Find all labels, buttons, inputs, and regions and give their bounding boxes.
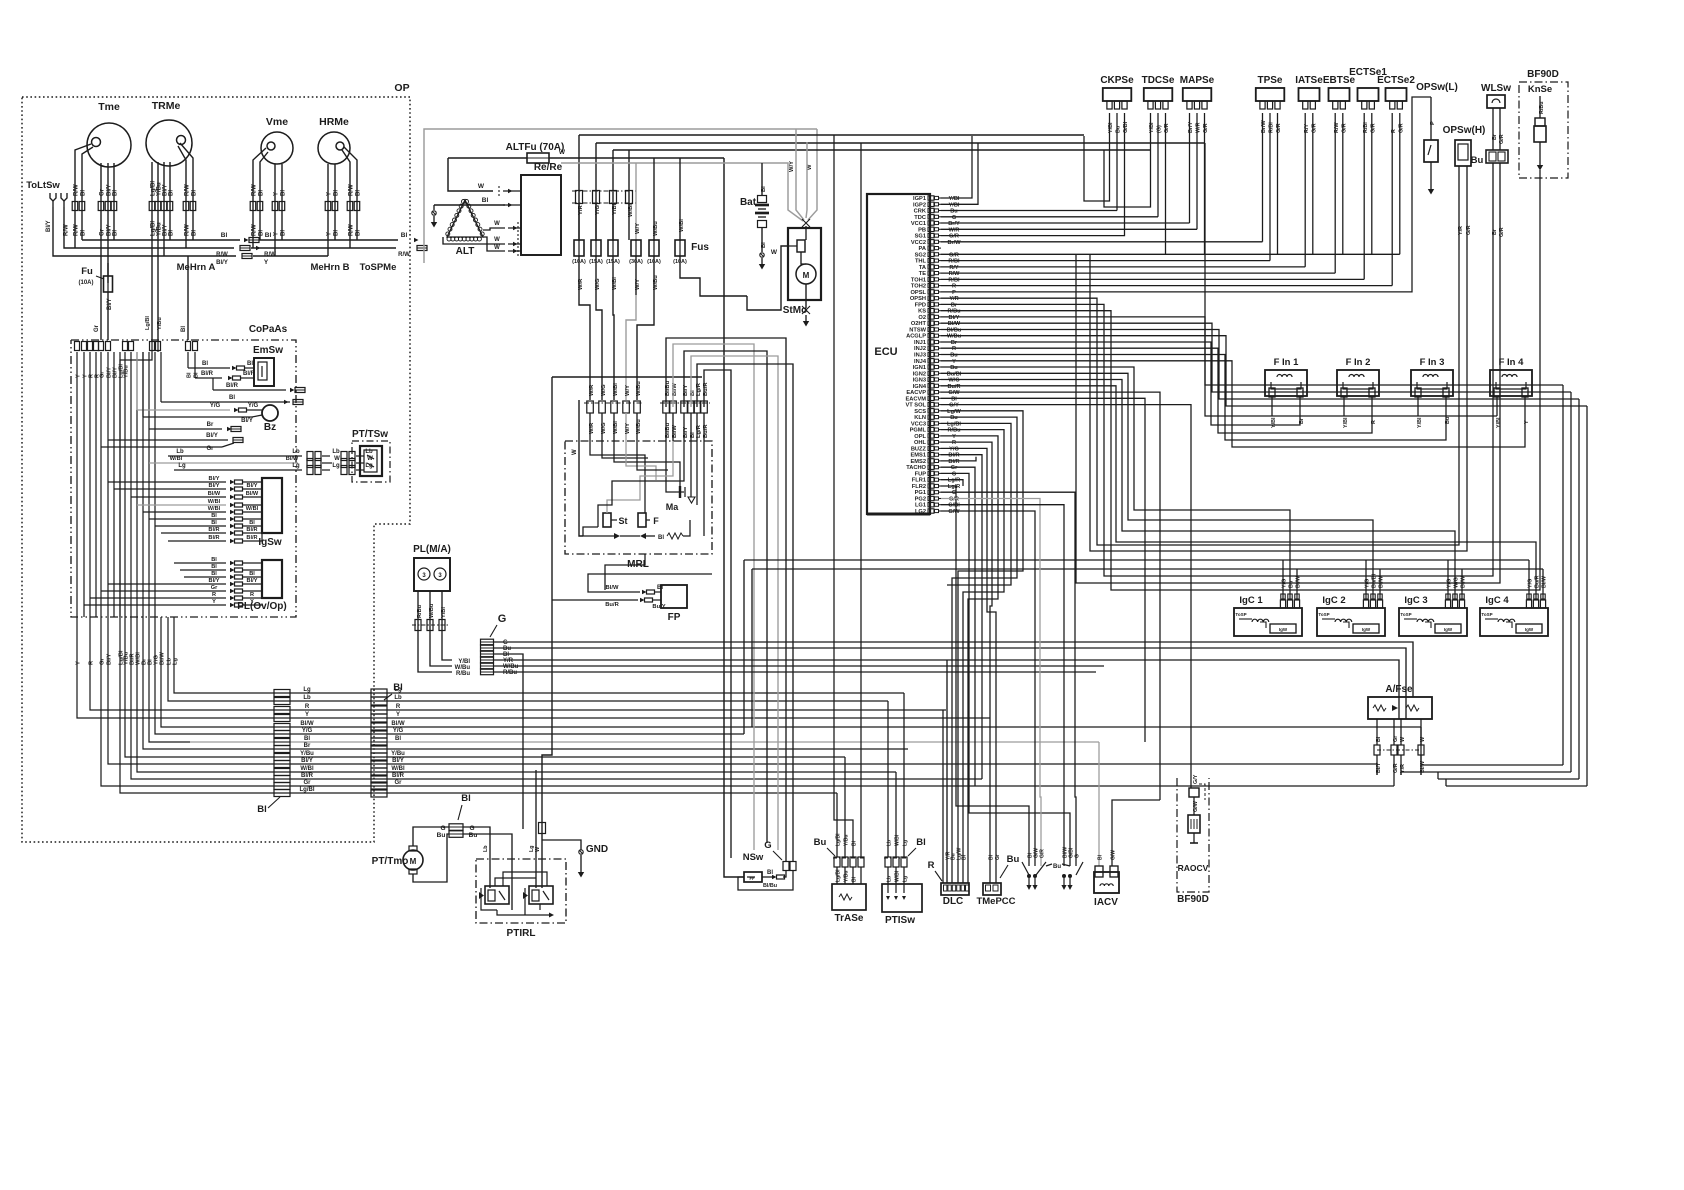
wire G row Y/R <box>494 660 1399 719</box>
wire Bl/R drop to bus <box>131 617 190 779</box>
svg-text:Bu: Bu <box>950 365 958 371</box>
svg-text:PTIRL: PTIRL <box>507 928 536 939</box>
wire EMS2 <box>941 457 976 461</box>
svg-text:Y: Y <box>212 599 216 605</box>
svg-text:Bl/Y: Bl/Y <box>949 315 960 321</box>
svg-text:WLSw: WLSw <box>1481 83 1511 94</box>
svg-text:Bu: Bu <box>950 353 958 359</box>
svg-text:G/W: G/W <box>948 390 960 396</box>
svg-text:R/Bu: R/Bu <box>947 428 961 434</box>
svg-text:Bl: Bl <box>951 396 957 402</box>
svg-text:W/Bl: W/Bl <box>300 766 314 772</box>
svg-text:PG1: PG1 <box>915 490 926 496</box>
svg-text:Bl/Y: Bl/Y <box>216 260 228 266</box>
svg-text:W: W <box>494 221 500 227</box>
svg-text:G: G <box>469 825 474 832</box>
wire Bl <box>192 166 194 240</box>
svg-text:Bl/R: Bl/R <box>208 527 219 533</box>
connector column Bl right <box>371 689 387 697</box>
svg-text:Bl: Bl <box>81 190 87 196</box>
wire Bl/W coil rail <box>752 568 1543 570</box>
svg-text:Gr: Gr <box>951 465 958 471</box>
svg-text:W: W <box>494 237 500 243</box>
svg-text:Bl/Y: Bl/Y <box>206 433 218 439</box>
ignition coil IgC 4 <box>1480 608 1548 636</box>
wire Y/G col <box>595 143 597 240</box>
svg-text:R: R <box>305 704 310 710</box>
svg-text:MAPSe: MAPSe <box>1180 75 1215 86</box>
wire BUZZ to TMePCC <box>941 448 996 883</box>
wire Y bus <box>190 717 990 719</box>
MRL bottom wire with diodes <box>583 535 614 537</box>
svg-text:W/Bu: W/Bu <box>636 419 642 434</box>
svg-text:W: W <box>771 249 778 256</box>
meter Vme <box>261 132 293 164</box>
svg-text:Bl/W: Bl/W <box>300 721 314 727</box>
wire Gr <box>100 167 102 310</box>
svg-text:Lb: Lb <box>332 449 340 455</box>
svg-text:R/Y: R/Y <box>949 265 959 271</box>
svg-text:Gr: Gr <box>394 780 402 786</box>
svg-text:W/Y: W/Y <box>789 161 795 172</box>
wire Y <box>327 170 329 256</box>
svg-text:R/W: R/W <box>264 252 276 258</box>
wire R drop to bus <box>90 617 190 710</box>
wire R/W <box>252 172 254 248</box>
svg-text:Bl/R: Bl/R <box>208 535 219 541</box>
svg-text:R: R <box>212 592 216 598</box>
valve IACV <box>1094 872 1119 893</box>
wire R bus <box>190 709 946 711</box>
svg-text:R: R <box>928 860 935 871</box>
svg-text:Lg/W: Lg/W <box>947 409 961 415</box>
wire Bl <box>356 170 358 240</box>
svg-text:R/W: R/W <box>252 224 258 236</box>
wire VT SOL to RAOCV <box>941 405 1191 788</box>
wire TRMe stubs <box>151 162 153 166</box>
wire Bl/Y <box>107 167 109 283</box>
wire Lg/Bl drop to bus <box>120 617 190 793</box>
svg-text:Bl: Bl <box>265 232 272 239</box>
wire Y/Bu <box>157 166 159 340</box>
wire Bl <box>113 167 115 240</box>
wire Lb drop to bus <box>168 617 190 701</box>
wire PG1 to ground2 <box>941 492 1076 866</box>
svg-text:EMS1: EMS1 <box>911 453 927 459</box>
svg-text:Bl: Bl <box>658 535 664 541</box>
svg-text:LG1: LG1 <box>915 503 926 509</box>
wire Lg/Bl Y/Bu through <box>151 340 153 352</box>
wire FUP to ground2 <box>941 473 1070 866</box>
svg-text:Gr: Gr <box>100 188 106 196</box>
svg-text:Bl: Bl <box>761 242 767 248</box>
OP panel dashed boundary <box>22 97 410 842</box>
svg-text:(10A): (10A) <box>78 280 93 286</box>
wire W/Bl to PT/TSw <box>149 462 298 464</box>
svg-text:Bl: Bl <box>761 186 767 192</box>
svg-text:Bl/Bu: Bl/Bu <box>763 883 777 889</box>
svg-text:TACHO: TACHO <box>906 465 926 471</box>
svg-text:R/Bu: R/Bu <box>947 309 961 315</box>
svg-text:Bl: Bl <box>961 854 967 860</box>
wire SG2 rail <box>941 253 1400 255</box>
ignition coil IgC 1 <box>1234 608 1302 636</box>
svg-text:FPD: FPD <box>915 302 926 308</box>
svg-text:Lg: Lg <box>394 687 402 693</box>
wire F relay to FP <box>605 554 645 590</box>
svg-text:VCC2: VCC2 <box>911 240 926 246</box>
svg-text:W/R: W/R <box>578 278 584 290</box>
svg-text:Bl/R: Bl/R <box>201 371 214 377</box>
svg-text:G/Y: G/Y <box>1193 774 1199 784</box>
svg-text:W/Y: W/Y <box>625 423 631 434</box>
wire Lg to PT/TSw <box>174 469 302 471</box>
svg-text:Y/Bu: Y/Bu <box>300 751 314 757</box>
svg-text:IgC 4: IgC 4 <box>1485 595 1509 606</box>
svg-text:F In 1: F In 1 <box>1274 357 1300 368</box>
svg-text:SCS: SCS <box>914 409 926 415</box>
svg-text:Bl: Bl <box>482 197 489 204</box>
svg-text:Tme: Tme <box>98 101 120 113</box>
wire VCC2 to TPSe <box>941 241 1263 243</box>
svg-text:Y/R: Y/R <box>1458 226 1464 235</box>
svg-text:OPSL: OPSL <box>911 290 927 296</box>
svg-text:Bl: Bl <box>169 190 175 196</box>
svg-text:G: G <box>952 471 956 477</box>
wire Lg/Bl bus <box>190 792 837 794</box>
svg-text:Br/W: Br/W <box>947 240 961 246</box>
svg-text:ToLtSw: ToLtSw <box>26 180 60 191</box>
svg-text:Y: Y <box>396 712 400 718</box>
svg-text:Y: Y <box>952 434 956 440</box>
wire Bl/Y fuse drop <box>107 263 109 276</box>
connector column Bl left <box>274 690 290 697</box>
svg-text:St: St <box>619 516 628 526</box>
svg-text:Bl: Bl <box>281 190 287 196</box>
wire Bl <box>281 170 283 240</box>
svg-text:Gr: Gr <box>303 780 311 786</box>
A/Fse Bl/W to right bus <box>1421 765 1563 775</box>
svg-text:G/Y: G/Y <box>949 403 959 409</box>
wire FLR1 <box>941 480 963 486</box>
wire bus Y/G riser to coil rail <box>743 560 745 734</box>
svg-text:Gr: Gr <box>206 446 214 452</box>
svg-text:W/Bl: W/Bl <box>628 204 634 217</box>
svg-text:Lb: Lb <box>292 449 300 455</box>
svg-text:Bl: Bl <box>113 230 119 236</box>
svg-text:Y/Bl: Y/Bl <box>1343 417 1349 428</box>
svg-text:Bl: Bl <box>259 190 265 196</box>
svg-text:Y: Y <box>327 192 333 196</box>
svg-text:G/R: G/R <box>1466 225 1472 235</box>
svg-text:Bl: Bl <box>916 837 926 848</box>
svg-text:R/W: R/W <box>252 184 258 196</box>
wires NSw <box>762 876 772 878</box>
sensor IATSe <box>1299 88 1320 101</box>
wire EMS1 <box>941 455 982 779</box>
svg-text:Bl: Bl <box>1376 736 1382 742</box>
svg-text:Bl: Bl <box>249 520 255 526</box>
svg-text:TE: TE <box>919 271 926 277</box>
svg-text:R: R <box>952 346 956 352</box>
ignition coil IgC 3 <box>1399 608 1467 636</box>
svg-text:Lg/Bl: Lg/Bl <box>145 316 151 330</box>
svg-text:Bl: Bl <box>192 190 198 196</box>
svg-text:CKPSe: CKPSe <box>1100 75 1134 86</box>
svg-text:W/Bl: W/Bl <box>679 219 685 232</box>
svg-text:INJ1: INJ1 <box>914 340 926 346</box>
wire Y/R col <box>578 135 580 240</box>
svg-text:OHL: OHL <box>914 440 927 446</box>
svg-text:Y: Y <box>274 232 280 236</box>
ground ALT <box>433 205 435 210</box>
wire OHL to TMePCC <box>941 442 992 883</box>
svg-text:Br: Br <box>304 743 311 749</box>
svg-text:Lg/Bl: Lg/Bl <box>947 421 961 427</box>
wire Tme stubs <box>75 144 91 158</box>
svg-text:IGN2: IGN2 <box>913 371 926 377</box>
svg-text:Bl/W: Bl/W <box>948 321 961 327</box>
wire IGP1 feed <box>941 136 972 198</box>
wire W/Bl bus <box>190 771 896 773</box>
svg-text:RAOCV: RAOCV <box>1178 863 1209 873</box>
svg-text:Y: Y <box>264 259 269 266</box>
svg-text:IATSe: IATSe <box>1295 75 1323 86</box>
svg-text:BF90D: BF90D <box>1177 894 1209 905</box>
svg-text:BF90D: BF90D <box>1527 69 1559 80</box>
svg-text:Lg/R: Lg/R <box>948 478 960 484</box>
svg-text:Bl: Bl <box>221 232 228 239</box>
svg-text:G: G <box>440 825 445 832</box>
svg-text:Gr: Gr <box>995 854 1001 860</box>
svg-text:Bl: Bl <box>249 571 255 577</box>
svg-text:KnSe: KnSe <box>1528 84 1552 95</box>
svg-text:Bu/Y: Bu/Y <box>652 604 665 610</box>
svg-text:Y/R: Y/R <box>949 296 958 302</box>
svg-text:THL: THL <box>915 259 927 265</box>
wire Y <box>274 170 276 256</box>
svg-text:SG2: SG2 <box>915 252 926 258</box>
wires to PL(Ov/Op) <box>174 562 226 564</box>
svg-text:IGN1: IGN1 <box>913 365 926 371</box>
svg-text:Bl: Bl <box>461 793 471 804</box>
wire Lg/Bl <box>151 166 153 340</box>
svg-text:Bl: Bl <box>229 395 235 401</box>
wire Bl pair in CoPaAs <box>187 352 189 368</box>
A/Fse wires down <box>1376 719 1378 745</box>
wire Lg bus <box>190 692 904 694</box>
wire IGP2 feed <box>941 143 978 204</box>
svg-text:OP: OP <box>394 82 409 94</box>
svg-text:W/Bl: W/Bl <box>170 456 183 462</box>
svg-text:PB: PB <box>918 227 926 233</box>
svg-text:IGP2: IGP2 <box>913 202 926 208</box>
svg-text:Bu: Bu <box>950 209 958 215</box>
svg-text:Lg: Lg <box>173 657 179 665</box>
wires PL(M/A) to G <box>418 635 452 672</box>
svg-text:VT SOL: VT SOL <box>905 403 926 409</box>
svg-text:StMo: StMo <box>783 305 807 316</box>
svg-text:W/Bl: W/Bl <box>613 383 619 396</box>
svg-text:R/W: R/W <box>74 224 80 236</box>
PTIRL relay 1 <box>485 886 509 904</box>
wire Bu to PTIRL <box>463 834 512 910</box>
svg-text:FF: FF <box>750 876 755 881</box>
svg-text:Bu/R: Bu/R <box>703 424 709 438</box>
svg-text:Y/Bl: Y/Bl <box>1496 417 1502 428</box>
svg-text:Bl: Bl <box>211 520 217 526</box>
top feed horizontals <box>579 134 1084 136</box>
svg-text:R/Bl: R/Bl <box>948 259 960 265</box>
svg-text:Bl: Bl <box>113 190 119 196</box>
svg-text:MeHrn A: MeHrn A <box>177 262 216 273</box>
svg-text:Bl/W: Bl/W <box>606 585 619 591</box>
svg-text:W: W <box>334 456 340 462</box>
svg-text:CoPaAs: CoPaAs <box>249 324 288 335</box>
svg-text:ToSP: ToSP <box>1235 612 1246 617</box>
wire CKPSe Y/Bl power <box>1084 113 1110 201</box>
svg-text:Lg: Lg <box>332 463 340 469</box>
svg-text:GND: GND <box>586 844 608 855</box>
svg-text:Bl/W: Bl/W <box>391 721 405 727</box>
wire OPSw(H) G/R to ground rail <box>1090 250 1467 551</box>
wire Bl <box>169 166 171 240</box>
svg-text:G/W: G/W <box>1111 850 1117 860</box>
svg-text:IgW: IgW <box>1362 627 1371 632</box>
svg-text:Bl: Bl <box>181 326 187 332</box>
svg-text:Bl: Bl <box>187 372 193 378</box>
svg-text:Y/Bu: Y/Bu <box>124 365 130 378</box>
svg-text:Bl/Y: Bl/Y <box>209 476 220 482</box>
wire Lg to PTIRL <box>535 770 537 888</box>
svg-text:Y: Y <box>76 661 82 665</box>
relay F <box>638 513 646 527</box>
svg-text:Bl/W: Bl/W <box>672 425 678 438</box>
wire WLSw G/R to ground rail <box>1076 250 1500 583</box>
svg-text:IgW: IgW <box>1444 627 1453 632</box>
svg-text:Bu: Bu <box>1007 854 1020 865</box>
svg-text:Y/Bl: Y/Bl <box>1271 417 1277 428</box>
wire Bl/R to EmSw <box>195 377 222 379</box>
svg-text:Bl/W: Bl/W <box>160 652 166 665</box>
wire Br drop to bus <box>143 617 190 749</box>
svg-text:W/Bl: W/Bl <box>208 499 221 505</box>
wire gray W/Y upper <box>561 163 803 221</box>
svg-text:Bl/R: Bl/R <box>243 371 256 377</box>
svg-text:Bl: Bl <box>1098 854 1104 860</box>
svg-text:W/G: W/G <box>601 384 607 396</box>
wire OPL to DLC <box>941 436 998 883</box>
staircase to MRL connector row <box>579 295 590 400</box>
svg-text:R: R <box>250 592 254 598</box>
wire Lg drop to bus <box>174 617 190 693</box>
svg-text:O2: O2 <box>918 315 926 321</box>
svg-text:W/G: W/G <box>595 278 601 290</box>
svg-text:Fu: Fu <box>81 266 93 277</box>
svg-text:R/W: R/W <box>185 184 191 196</box>
wire TA IATSe <box>941 266 1305 268</box>
svg-text:Lg: Lg <box>292 463 300 469</box>
svg-text:W/R: W/R <box>949 227 960 233</box>
svg-text:Y/Bl: Y/Bl <box>441 607 447 618</box>
svg-text:PL(Ov/Op): PL(Ov/Op) <box>237 601 286 612</box>
svg-text:HRMe: HRMe <box>319 116 349 128</box>
svg-text:M: M <box>803 271 810 280</box>
svg-text:INJ2: INJ2 <box>914 346 926 352</box>
wire LG1 to ground2 <box>941 505 1064 866</box>
svg-text:KLN: KLN <box>914 415 926 421</box>
svg-text:Bl: Bl <box>259 230 265 236</box>
meter HRMe <box>318 132 350 164</box>
svg-text:G/R: G/R <box>949 234 959 240</box>
meter TRMe <box>146 120 192 166</box>
svg-text:DLC: DLC <box>943 896 964 907</box>
wire Bl to Re/Re <box>434 204 505 206</box>
StMo ground <box>805 284 807 308</box>
wire TDC <box>941 216 1158 218</box>
svg-text:NTSW: NTSW <box>909 328 926 334</box>
svg-text:W/Bu: W/Bu <box>653 275 659 290</box>
svg-text:Bz: Bz <box>264 422 276 433</box>
svg-text:Y/Bu: Y/Bu <box>391 751 405 757</box>
ECU box <box>867 194 930 514</box>
svg-text:VCC1: VCC1 <box>911 221 926 227</box>
CoPaAs top connectors <box>75 342 80 351</box>
svg-text:Y/G: Y/G <box>248 403 259 409</box>
wire PGML to DLC <box>941 430 1004 883</box>
wire Br bus <box>190 748 908 750</box>
svg-text:R: R <box>952 284 956 290</box>
wire CRK <box>941 210 1117 212</box>
svg-text:Bl/R: Bl/R <box>246 535 257 541</box>
MRL feeds to bottom of page <box>666 338 786 861</box>
svg-text:Bl: Bl <box>356 230 362 236</box>
sensor ECTSe1 <box>1358 88 1379 101</box>
svg-text:PL(M/A): PL(M/A) <box>413 544 451 555</box>
svg-text:Bu: Bu <box>1471 155 1484 166</box>
svg-text:Bl: Bl <box>401 232 408 239</box>
svg-text:W/Y: W/Y <box>635 223 641 234</box>
wire Bl/Y to Bz <box>143 416 252 418</box>
svg-text:G: G <box>764 840 771 851</box>
svg-text:TDCSe: TDCSe <box>1142 75 1175 86</box>
svg-text:TDC: TDC <box>914 215 926 221</box>
relay box MRL <box>565 441 712 554</box>
svg-text:Bl: Bl <box>395 736 401 742</box>
svg-text:R/Bu: R/Bu <box>1539 101 1545 114</box>
wire Bl out <box>161 401 290 403</box>
svg-text:ToSP: ToSP <box>1318 612 1329 617</box>
sensor MAPSe <box>1183 88 1212 101</box>
svg-text:ALTFu (70A): ALTFu (70A) <box>506 142 565 153</box>
svg-text:Y/Bl: Y/Bl <box>949 202 960 208</box>
svg-text:W: W <box>807 164 813 170</box>
svg-text:Bl/Bu: Bl/Bu <box>665 422 671 438</box>
wire G row Bu <box>494 648 1406 719</box>
wires PT/Tmo <box>413 827 449 846</box>
svg-text:W/Bu: W/Bu <box>947 334 962 340</box>
svg-text:Bl/Y: Bl/Y <box>46 220 52 232</box>
wire Vme stubs <box>253 148 266 172</box>
wire Bl <box>81 162 83 240</box>
wire Y/G coil rail <box>744 559 1529 561</box>
svg-text:Bu/R: Bu/R <box>947 384 960 390</box>
pump FP <box>661 585 687 608</box>
svg-text:W/Bu: W/Bu <box>429 603 435 618</box>
ignition coil IgC 2 <box>1317 608 1385 636</box>
wire long vertical to TrASe 4th <box>860 143 862 857</box>
svg-text:LG2: LG2 <box>915 509 926 515</box>
